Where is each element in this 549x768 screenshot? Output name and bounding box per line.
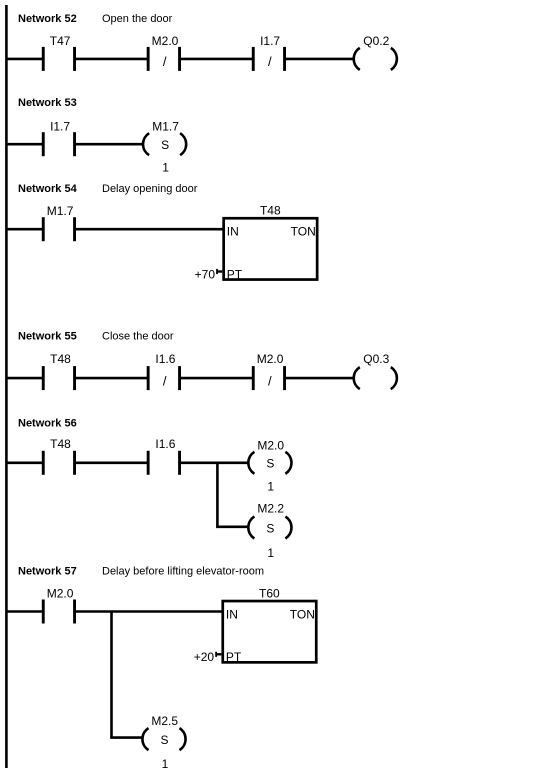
label M2.0	[257, 352, 284, 366]
svg-text:M2.2: M2.2	[257, 502, 284, 516]
label I1.6	[155, 352, 175, 366]
contact M2.0	[42, 600, 76, 624]
svg-text:/: /	[163, 373, 167, 388]
svg-text:Network 57: Network 57	[18, 566, 77, 578]
network 52 caption	[18, 13, 173, 25]
left power rail	[5, 5, 8, 768]
wire	[6, 58, 43, 61]
contact I1.7 (NC)	[252, 47, 286, 71]
svg-text:IN: IN	[226, 607, 238, 621]
label 1	[162, 757, 169, 768]
coil Q0.3	[354, 367, 397, 389]
svg-text:S: S	[266, 521, 274, 535]
label M2.0	[47, 587, 74, 601]
svg-text:T47: T47	[50, 34, 71, 48]
wire	[75, 58, 149, 61]
set coil M2.0 (S)	[248, 452, 291, 474]
svg-text:PT: PT	[227, 267, 243, 281]
network 54 caption	[18, 183, 198, 195]
label 1	[267, 480, 274, 494]
wire	[6, 143, 43, 146]
svg-text:PT: PT	[226, 650, 242, 664]
svg-text:TON: TON	[291, 225, 316, 239]
svg-text:Network 55: Network 55	[18, 331, 77, 343]
label M2.5	[151, 714, 178, 728]
svg-text:M1.7: M1.7	[47, 204, 74, 218]
svg-text:Network 52: Network 52	[18, 13, 77, 25]
label 1	[162, 161, 169, 175]
wire	[180, 58, 254, 61]
svg-text:M2.5: M2.5	[151, 714, 178, 728]
contact I1.7	[42, 132, 76, 156]
label 1	[267, 546, 274, 560]
label Q0.2	[363, 34, 389, 48]
network 56 caption	[18, 418, 77, 430]
svg-text:Network 56: Network 56	[18, 418, 77, 430]
label M1.7	[152, 119, 179, 133]
label T47	[50, 34, 71, 48]
network 55 caption	[18, 331, 174, 343]
network 57 caption	[18, 566, 264, 578]
svg-text:1: 1	[162, 161, 169, 175]
svg-text:Network 53: Network 53	[18, 97, 77, 109]
wire to branch coil	[110, 736, 142, 739]
svg-text:+20: +20	[194, 650, 215, 664]
label T48	[50, 437, 71, 451]
branch wire down	[110, 612, 113, 738]
timer box T48 (TON) with IN/PT pins and preset +70	[195, 204, 318, 282]
svg-text:Delay before lifting elevator-: Delay before lifting elevator-room	[102, 566, 264, 578]
svg-text:1: 1	[267, 480, 274, 494]
branch wire down	[216, 463, 219, 527]
wire	[75, 461, 149, 464]
label I1.7	[260, 34, 280, 48]
svg-text:T48: T48	[260, 204, 281, 218]
set coil M1.7 (S)	[143, 133, 186, 155]
wire	[180, 377, 254, 380]
svg-text:M2.0: M2.0	[152, 34, 179, 48]
label I1.6	[155, 437, 175, 451]
svg-text:I1.6: I1.6	[155, 437, 175, 451]
wire	[75, 610, 223, 613]
wire	[180, 461, 249, 464]
svg-text:+70: +70	[195, 267, 216, 281]
svg-text:M2.0: M2.0	[257, 352, 284, 366]
contact I1.6 (NC)	[147, 366, 181, 390]
wire	[6, 228, 43, 231]
svg-text:M2.0: M2.0	[257, 438, 284, 452]
svg-text:I1.7: I1.7	[260, 34, 280, 48]
wire to second branch	[216, 525, 249, 528]
svg-text:M2.0: M2.0	[47, 587, 74, 601]
contact T48	[42, 366, 76, 390]
svg-text:Delay opening door: Delay opening door	[102, 183, 198, 195]
timer box T60 (TON) with IN/PT pins and preset +20	[194, 586, 317, 664]
wire	[6, 461, 43, 464]
svg-text:I1.6: I1.6	[155, 352, 175, 366]
wire	[75, 143, 143, 146]
svg-text:1: 1	[267, 546, 274, 560]
svg-text:T48: T48	[50, 352, 71, 366]
svg-text:TON: TON	[290, 607, 315, 621]
svg-text:M1.7: M1.7	[152, 119, 179, 133]
coil Q0.2	[354, 48, 397, 70]
svg-text:T48: T48	[50, 437, 71, 451]
svg-text:Q0.2: Q0.2	[363, 34, 389, 48]
svg-text:/: /	[268, 54, 272, 69]
svg-text:S: S	[160, 733, 168, 747]
label T48	[50, 352, 71, 366]
network 53 caption	[18, 97, 77, 109]
svg-text:IN: IN	[227, 225, 239, 239]
svg-text:Q0.3: Q0.3	[363, 352, 389, 366]
contact T48	[42, 451, 76, 475]
svg-text:Close the door: Close the door	[102, 331, 174, 343]
wire	[75, 377, 149, 380]
label I1.7	[50, 119, 70, 133]
svg-text:/: /	[163, 54, 167, 69]
label M1.7	[47, 204, 74, 218]
svg-text:Open the door: Open the door	[102, 13, 173, 25]
label M2.0	[152, 34, 179, 48]
label Q0.3	[363, 352, 389, 366]
svg-text:T60: T60	[259, 586, 280, 600]
svg-text:S: S	[161, 138, 169, 152]
label M2.2	[257, 502, 284, 516]
set coil M2.2 (S)	[248, 517, 291, 539]
label M2.0	[257, 438, 284, 452]
contact M2.0 (NC)	[252, 366, 286, 390]
svg-text:1: 1	[162, 757, 169, 768]
svg-text:Network 54: Network 54	[18, 183, 78, 195]
contact T47	[42, 47, 76, 71]
svg-text:/: /	[268, 373, 272, 388]
wire	[285, 58, 354, 61]
wire	[285, 377, 354, 380]
set coil M2.5 (S)	[142, 728, 185, 750]
wire	[75, 228, 224, 231]
wire	[6, 610, 43, 613]
contact M1.7	[42, 217, 76, 241]
svg-text:I1.7: I1.7	[50, 119, 70, 133]
wire	[6, 377, 43, 380]
svg-text:S: S	[266, 457, 274, 471]
contact M2.0 (NC)	[147, 47, 181, 71]
contact I1.6	[147, 451, 181, 475]
